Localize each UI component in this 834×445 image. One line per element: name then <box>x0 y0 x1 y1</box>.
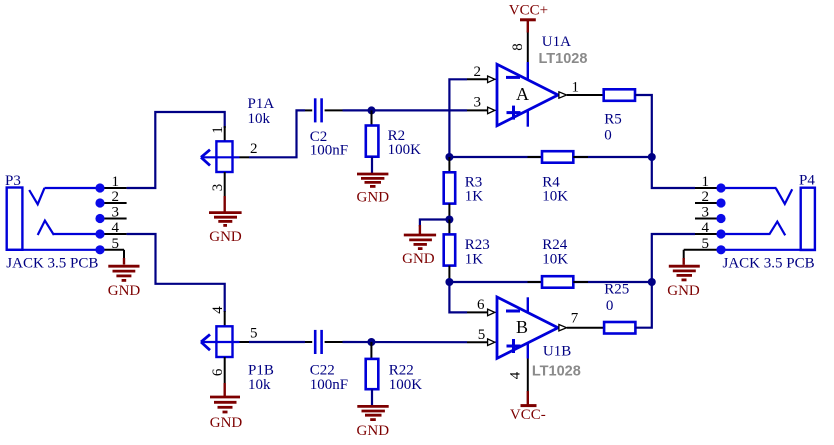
potentiometer P1A wiper arrow lower <box>201 157 210 165</box>
ground symbol at P4 bar2 <box>673 269 696 272</box>
capacitor C22 right plate <box>320 330 323 354</box>
op-amp U1A minus sign <box>506 76 520 79</box>
junction node feedback/R3 <box>445 153 453 161</box>
svg-text:R5: R5 <box>604 111 622 127</box>
svg-text:0: 0 <box>604 127 612 143</box>
svg-text:1: 1 <box>210 126 226 134</box>
svg-text:10k: 10k <box>248 111 271 127</box>
resistor R23 body <box>444 234 456 265</box>
connector P3 pin 3 line <box>100 218 127 220</box>
ground lead at P3 pin 5 <box>123 250 125 262</box>
connector P4 tip contact <box>776 188 792 204</box>
svg-text:VCC+: VCC+ <box>509 3 548 19</box>
resistor R24 left lead <box>528 281 543 283</box>
resistor R22 body <box>366 359 379 389</box>
connector P4 internal lead pin5 (sleeve) <box>721 249 815 251</box>
potentiometer P1B body <box>216 326 232 357</box>
resistor R2 bottom lead <box>371 157 373 173</box>
wire P3 pin4 to lower channel <box>127 234 225 312</box>
op-amp U1B power stub bottom <box>527 343 529 359</box>
ground lead at R3/R23 node <box>419 225 421 234</box>
svg-text:5: 5 <box>702 236 710 252</box>
svg-text:1: 1 <box>702 174 710 190</box>
op-amp U1A pin 1 lead <box>567 94 604 96</box>
svg-text:A: A <box>516 84 529 104</box>
resistor R2 body <box>366 126 379 157</box>
svg-text:10K: 10K <box>542 251 568 267</box>
potentiometer P1B wiper arrow upper <box>201 334 210 342</box>
op-amp U1B pin 5 input arrow <box>488 339 497 346</box>
connector P4 internal lead pin1 <box>721 187 777 189</box>
junction node C2/R2 <box>368 106 376 114</box>
wire R25 to P4 pin4 <box>635 234 695 328</box>
ground symbol at R3/R23 node bar4 <box>418 247 423 250</box>
svg-text:2: 2 <box>702 189 710 205</box>
ground symbol at P4 bar1 <box>669 265 700 268</box>
connector P3 tip contact <box>29 188 44 204</box>
potentiometer P1A pin 1 lead <box>224 126 226 141</box>
junction node C22/R22 <box>367 338 375 346</box>
resistor R24 right lead <box>573 281 588 283</box>
svg-text:JACK 3.5 PCB: JACK 3.5 PCB <box>723 255 815 271</box>
connector P3 internal lead pin1 <box>45 187 101 189</box>
connector P3 pin dot 4 <box>95 229 104 238</box>
connector P3 ring contact <box>38 221 54 235</box>
ground symbol at P3 pin5 lead <box>123 258 125 265</box>
connector P3 pin 1 line <box>100 187 127 189</box>
svg-text:GND: GND <box>209 229 242 245</box>
connector P4 pin 2 line <box>695 202 721 204</box>
op-amp U1A triangle body <box>497 64 558 125</box>
ground symbol at P1B bar1 <box>210 396 240 399</box>
resistor R2 top lead <box>371 110 373 125</box>
resistor R5 body <box>604 89 635 101</box>
svg-text:GND: GND <box>357 189 390 205</box>
potentiometer P1B pin 4 lead <box>224 311 226 326</box>
svg-text:GND: GND <box>357 423 390 439</box>
connector P3 jack body <box>7 188 23 250</box>
ground symbol at R3/R23 node bar1 <box>404 234 436 237</box>
wire riser to U1B pin6 <box>449 282 467 312</box>
ground symbol at P1A bar3 <box>218 220 232 223</box>
potentiometer P1A wiper line <box>201 156 240 158</box>
op-amp U1A power stub bottom <box>527 110 529 127</box>
op-amp U1A pin 3 lead <box>467 109 488 111</box>
svg-text:P1A: P1A <box>248 96 275 112</box>
connector P4 pin 4 line <box>695 233 721 235</box>
capacitor C22 left plate <box>314 330 317 354</box>
svg-text:6: 6 <box>477 297 485 313</box>
junction node R5/R4 feedback <box>648 153 656 161</box>
svg-text:5: 5 <box>478 327 486 343</box>
potentiometer P1B wiper line <box>201 341 240 343</box>
ground symbol at P1B bar2 <box>214 401 237 404</box>
potentiometer P1A pin 2 lead <box>240 156 250 158</box>
ground symbol at R2 bar4 <box>370 185 376 188</box>
resistor R4 right lead <box>573 156 588 158</box>
wire node to ground stub <box>420 220 450 227</box>
connector P3 internal lead pin5 (sleeve) <box>7 249 100 251</box>
svg-text:VCC-: VCC- <box>510 407 546 423</box>
power symbol VCC+ lead <box>527 20 529 33</box>
connector P4 internal lead pin4 <box>721 233 770 235</box>
connector P4 pin 3 line <box>695 218 721 220</box>
resistor R4 body <box>542 151 573 163</box>
ground symbol at R2 bar3 <box>365 181 382 184</box>
svg-text:2: 2 <box>112 189 120 205</box>
connector P4 pin dot 4 <box>716 229 725 238</box>
wire P1A wiper to C2 <box>249 110 305 157</box>
svg-text:4: 4 <box>112 220 120 236</box>
potentiometer P1B wiper arrow lower <box>201 342 210 350</box>
svg-text:1: 1 <box>572 79 580 95</box>
svg-text:4: 4 <box>210 306 226 314</box>
resistor R3 bottom lead <box>448 204 450 220</box>
wire R5 to P4 pin1 <box>635 95 695 188</box>
op-amp U1A pin 8 lead <box>527 32 529 63</box>
ground symbol at R22 bar1 <box>357 405 388 408</box>
connector P3 internal lead pin4 <box>54 233 100 235</box>
power symbol VCC- bar <box>521 404 537 407</box>
power symbol VCC+ bar <box>520 18 536 21</box>
resistor R23 bottom lead <box>448 266 450 282</box>
svg-text:2: 2 <box>474 64 482 80</box>
svg-text:GND: GND <box>108 283 141 299</box>
svg-text:4: 4 <box>702 220 710 236</box>
svg-text:100K: 100K <box>389 377 423 393</box>
capacitor C22 right lead <box>325 341 343 343</box>
wire C22 to U1B pin5 <box>343 341 468 343</box>
op-amp U1A output arrow <box>559 92 569 98</box>
op-amp U1A power stub top <box>527 62 529 80</box>
svg-text:B: B <box>516 317 528 337</box>
ground lead at P4 pin 5 <box>683 250 685 259</box>
ground symbol at P4 bar4 <box>682 278 687 281</box>
svg-text:R25: R25 <box>604 281 629 297</box>
op-amp U1A pin 2 input arrow <box>488 76 497 83</box>
ground lead at P1B pin 6 <box>223 383 225 398</box>
svg-text:3: 3 <box>474 95 482 111</box>
svg-text:3: 3 <box>210 184 226 192</box>
svg-text:U1A: U1A <box>542 34 571 50</box>
capacitor C2 right lead <box>325 109 343 111</box>
op-amp U1A pin 2 lead <box>467 78 488 80</box>
power symbol VCC- lead <box>527 391 529 405</box>
junction node R3/R23/GND <box>445 216 453 224</box>
potentiometer P1A pin 3 lead <box>224 172 226 196</box>
connector P4 pin dot 2 <box>716 198 725 207</box>
resistor R3 top lead <box>448 157 450 172</box>
connector P4 pin 1 line <box>695 187 721 189</box>
capacitor C2 right plate <box>320 98 323 122</box>
svg-text:LT1028: LT1028 <box>532 363 581 379</box>
svg-text:1: 1 <box>112 174 120 190</box>
resistor R22 bottom lead <box>371 389 373 405</box>
ground symbol at P4 bar3 <box>677 274 693 277</box>
wire feedback riser to U1A pin2 <box>449 79 467 157</box>
ground symbol at P3 pin5 bar4 <box>122 279 127 282</box>
svg-text:U1B: U1B <box>543 344 571 360</box>
ground symbol at P4 lead <box>683 258 685 265</box>
op-amp U1B pin 4 lead <box>527 359 529 392</box>
ground symbol at P3 pin5 bar3 <box>116 274 131 277</box>
potentiometer P1B pin 5 lead <box>240 341 250 343</box>
ground symbol at R3/R23 node bar3 <box>414 243 427 246</box>
ground symbol at R2 bar1 <box>357 173 388 176</box>
connector P3 pin dot 1 <box>95 183 104 192</box>
connector P4 pin 5 line <box>684 249 721 251</box>
svg-text:3: 3 <box>112 205 120 221</box>
op-amp U1B pin 6 lead <box>467 311 488 313</box>
svg-text:6: 6 <box>210 368 226 376</box>
potentiometer P1A body <box>216 141 232 172</box>
op-amp U1B output arrow <box>559 325 569 331</box>
capacitor C2 left plate <box>314 98 317 122</box>
connector P3 pin dot 2 <box>95 198 104 207</box>
connector P3 pin dot 5 <box>95 245 104 254</box>
ground symbol at P1B bar4 <box>223 411 228 414</box>
op-amp U1B pin 5 lead <box>467 341 488 343</box>
ground symbol at P1A bar4 <box>223 224 227 227</box>
wire feedback top line <box>449 156 651 158</box>
op-amp U1B plus sign horizontal <box>507 345 521 348</box>
ground symbol at R22 bar3 <box>365 414 382 417</box>
op-amp U1B triangle body <box>497 297 558 358</box>
resistor R4 left lead <box>528 156 543 158</box>
svg-text:GND: GND <box>402 251 435 267</box>
ground symbol at R3/R23 node bar2 <box>409 238 432 241</box>
connector P4 ring contact <box>769 222 785 236</box>
connector P3 pin dot 3 <box>95 214 104 223</box>
capacitor C22 left lead <box>305 341 312 343</box>
svg-text:GND: GND <box>210 415 243 431</box>
junction node feedback2/R23 <box>445 278 453 286</box>
svg-text:10K: 10K <box>542 189 568 205</box>
svg-text:LT1028: LT1028 <box>539 51 588 67</box>
connector P4 jack body <box>801 188 815 250</box>
svg-text:GND: GND <box>667 283 700 299</box>
connector P3 pin 4 line <box>100 233 127 235</box>
wire feedback bottom line <box>449 281 651 283</box>
resistor R24 body <box>542 276 573 288</box>
op-amp U1B pin 6 input arrow <box>488 309 497 316</box>
connector P4 pin dot 3 <box>716 214 725 223</box>
svg-text:5: 5 <box>112 236 120 252</box>
op-amp U1B power stub top <box>527 297 529 313</box>
svg-text:5: 5 <box>250 326 258 342</box>
svg-text:4: 4 <box>508 371 524 379</box>
ground symbol at P3 pin5 bar2 <box>113 270 136 273</box>
ground symbol at P1A bar2 <box>214 216 237 219</box>
svg-text:0: 0 <box>606 298 614 314</box>
ground symbol at R22 bar4 <box>370 418 376 421</box>
connector P3 pin 5 line <box>100 249 124 251</box>
connector P4 pin dot 5 <box>716 245 725 254</box>
potentiometer P1B pin 6 lead <box>224 357 226 383</box>
svg-text:100K: 100K <box>388 142 422 158</box>
svg-text:100nF: 100nF <box>310 377 348 393</box>
ground lead at P1A pin 3 <box>223 196 225 213</box>
capacitor C2 left lead <box>305 109 312 111</box>
resistor R23 top lead <box>448 220 450 235</box>
op-amp U1A plus sign horizontal <box>507 111 521 114</box>
ground symbol at P1A bar1 <box>209 211 242 214</box>
op-amp U1A pin 3 input arrow <box>488 107 497 114</box>
svg-text:7: 7 <box>571 311 579 327</box>
connector P4 pin dot 1 <box>716 183 725 192</box>
svg-text:JACK 3.5 PCB: JACK 3.5 PCB <box>6 256 98 272</box>
wire P1B wiper to C22 <box>249 341 305 343</box>
svg-text:2: 2 <box>250 141 258 157</box>
resistor R25 body <box>604 322 635 334</box>
wire C2 to junction and opamp pin3 <box>343 109 468 111</box>
svg-text:1K: 1K <box>465 251 484 267</box>
svg-text:10k: 10k <box>248 377 271 393</box>
ground symbol at P1B bar3 <box>218 406 233 409</box>
op-amp U1B pin 7 lead <box>567 327 604 329</box>
ground symbol at P3 pin5 bar1 <box>108 265 139 268</box>
svg-text:8: 8 <box>510 43 526 51</box>
resistor R22 top lead <box>370 342 372 359</box>
svg-text:P4: P4 <box>799 173 815 189</box>
svg-text:100nF: 100nF <box>310 143 348 159</box>
resistor R3 body <box>444 172 456 203</box>
op-amp U1A plus sign vertical <box>512 106 515 120</box>
wire P3 pin1 to riser <box>127 112 225 188</box>
svg-text:1K: 1K <box>465 189 484 205</box>
ground symbol at R2 bar2 <box>361 177 384 180</box>
svg-text:3: 3 <box>702 205 710 221</box>
ground symbol at R22 bar2 <box>362 410 385 413</box>
potentiometer P1A wiper arrow upper <box>201 150 210 158</box>
junction node feedback2/R25 <box>648 278 656 286</box>
op-amp U1B minus sign <box>506 310 520 313</box>
connector P3 pin 2 line <box>100 202 127 204</box>
op-amp U1B plus sign vertical <box>512 339 515 353</box>
